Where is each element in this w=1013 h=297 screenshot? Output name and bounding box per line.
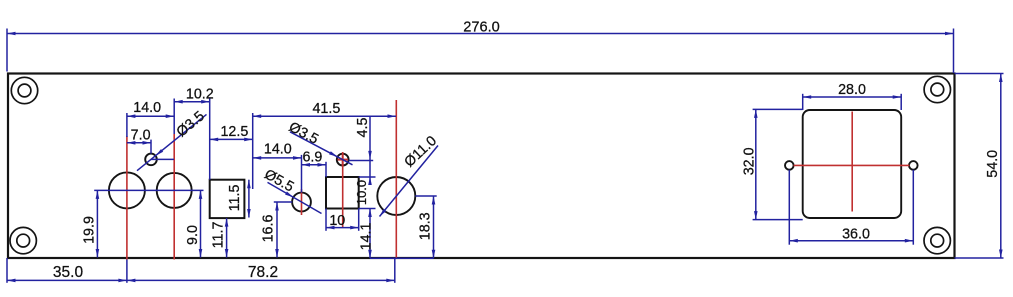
svg-text:28.0: 28.0 [838, 82, 866, 98]
svg-text:6.9: 6.9 [302, 149, 322, 165]
svg-text:35.0: 35.0 [53, 264, 84, 281]
svg-text:12.5: 12.5 [220, 124, 248, 140]
svg-text:78.2: 78.2 [248, 264, 278, 281]
svg-text:36.0: 36.0 [842, 227, 870, 243]
svg-text:18.3: 18.3 [417, 212, 433, 240]
svg-text:276.0: 276.0 [463, 19, 500, 35]
svg-text:10.0: 10.0 [354, 180, 369, 205]
svg-text:32.0: 32.0 [741, 147, 757, 175]
svg-text:41.5: 41.5 [312, 101, 340, 117]
svg-text:19.9: 19.9 [82, 216, 98, 244]
svg-text:11.7: 11.7 [210, 222, 226, 249]
svg-text:7.0: 7.0 [131, 127, 151, 143]
svg-text:16.6: 16.6 [261, 215, 277, 243]
svg-text:4.5: 4.5 [355, 118, 371, 138]
svg-text:54.0: 54.0 [985, 150, 1001, 178]
svg-text:11.5: 11.5 [227, 185, 243, 212]
svg-text:9.0: 9.0 [185, 225, 201, 245]
svg-text:14.0: 14.0 [264, 142, 292, 158]
svg-text:10: 10 [329, 213, 345, 229]
svg-text:14.0: 14.0 [133, 100, 161, 116]
svg-text:14.1: 14.1 [358, 223, 374, 251]
